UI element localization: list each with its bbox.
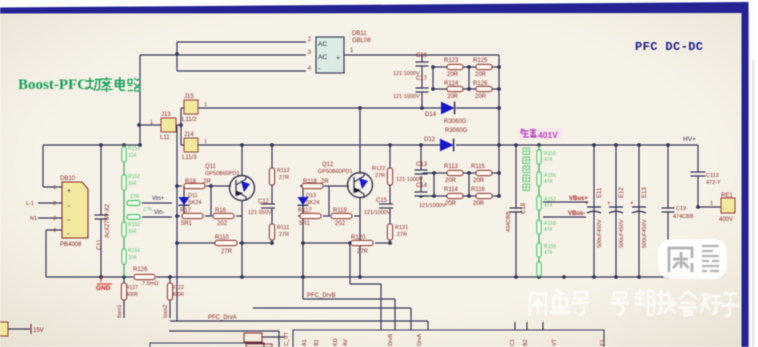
svg-text:+: +	[607, 201, 611, 207]
svg-text:~: ~	[67, 218, 71, 224]
svg-text:R153: R153	[128, 222, 140, 228]
svg-text:27R: 27R	[375, 173, 385, 179]
svg-text:20R: 20R	[473, 201, 485, 207]
svg-text:VBus-: VBus-	[568, 211, 585, 217]
svg-text:C11: C11	[97, 239, 103, 250]
svg-text:R3060G: R3060G	[445, 128, 468, 134]
svg-text:HV+: HV+	[683, 136, 696, 143]
svg-text:DrvB: DrvB	[388, 333, 394, 346]
svg-text:R3060G: R3060G	[444, 119, 467, 125]
svg-text:B2: B2	[523, 339, 529, 346]
svg-text:474CBB: 474CBB	[673, 214, 694, 220]
svg-text:R17: R17	[180, 208, 192, 214]
svg-text:R16: R16	[215, 208, 227, 214]
svg-text:202: 202	[217, 221, 228, 227]
svg-text:R127: R127	[126, 285, 138, 291]
svg-text:2R: 2R	[321, 179, 329, 185]
svg-text:C19: C19	[676, 206, 686, 212]
svg-text:R124: R124	[444, 81, 459, 87]
svg-text:R122: R122	[172, 285, 184, 291]
svg-text:104: 104	[128, 255, 137, 261]
svg-text:Vin-: Vin-	[154, 210, 165, 216]
svg-text:R119: R119	[333, 208, 348, 214]
svg-text:PB4008: PB4008	[60, 242, 82, 248]
svg-text:1: 1	[204, 139, 207, 145]
svg-text:500uF450V: 500uF450V	[597, 219, 603, 248]
svg-text:2: 2	[53, 201, 56, 207]
svg-text:R151: R151	[128, 146, 140, 152]
svg-text:27R: 27R	[279, 232, 289, 238]
svg-text:27R: 27R	[397, 232, 407, 238]
svg-text:VT: VT	[552, 338, 558, 346]
svg-text:J13: J13	[161, 112, 171, 118]
svg-text:R154: R154	[128, 248, 140, 254]
svg-text:27R: 27R	[143, 207, 153, 213]
svg-text:R18: R18	[185, 179, 197, 185]
svg-text:400R: 400R	[172, 292, 184, 298]
svg-text:GND: GND	[96, 285, 111, 292]
svg-text:474: 474	[544, 179, 553, 185]
svg-text:+: +	[630, 201, 634, 207]
svg-text:C16: C16	[416, 53, 428, 59]
svg-text:E11: E11	[597, 187, 603, 198]
svg-text:1: 1	[710, 201, 713, 207]
svg-text:474: 474	[544, 250, 553, 256]
svg-text:J15: J15	[184, 94, 194, 100]
svg-text:3: 3	[53, 216, 56, 222]
svg-text:B1: B1	[314, 339, 320, 346]
svg-text:J14: J14	[184, 132, 194, 138]
svg-text:R117: R117	[298, 208, 313, 214]
svg-text:400V: 400V	[719, 217, 733, 223]
svg-text:GBL08: GBL08	[352, 38, 371, 44]
svg-text:C17: C17	[416, 76, 428, 82]
svg-text:R115: R115	[471, 164, 486, 170]
svg-text:+: +	[336, 55, 340, 62]
svg-text:C13: C13	[416, 162, 428, 168]
svg-text:R152: R152	[128, 174, 140, 180]
svg-text:R112: R112	[277, 168, 290, 174]
svg-text:434CBB: 434CBB	[506, 211, 512, 232]
svg-text:DB11: DB11	[352, 31, 367, 37]
svg-text:A1: A1	[302, 339, 308, 346]
svg-text:L11/2: L11/2	[182, 117, 197, 123]
svg-text:D14: D14	[425, 112, 437, 118]
svg-text:121 1000V: 121 1000V	[393, 94, 420, 100]
svg-text:20R: 20R	[475, 94, 487, 100]
svg-text:5R1: 5R1	[181, 221, 193, 227]
svg-text:C15: C15	[376, 198, 388, 204]
svg-text:104: 104	[128, 181, 137, 187]
svg-text:+: +	[67, 188, 71, 195]
svg-text:L-1: L-1	[26, 201, 34, 207]
svg-text:1: 1	[204, 102, 207, 108]
svg-text:2R: 2R	[203, 179, 211, 185]
svg-text:Isen1: Isen1	[117, 305, 123, 318]
svg-text:20R: 20R	[447, 94, 459, 100]
svg-text:R121: R121	[395, 225, 408, 231]
svg-text:202: 202	[335, 221, 346, 227]
svg-text:R118: R118	[303, 179, 318, 185]
svg-text:R113: R113	[444, 164, 459, 170]
svg-text:15V: 15V	[33, 328, 44, 334]
svg-text:KD: KD	[333, 338, 339, 346]
svg-text:RE1: RE1	[721, 193, 733, 199]
svg-text:121/1000V: 121/1000V	[419, 203, 446, 209]
svg-text:20R: 20R	[473, 178, 485, 184]
svg-text:R110: R110	[215, 235, 230, 241]
svg-text:1: 1	[150, 120, 153, 126]
svg-text:1: 1	[53, 185, 56, 191]
svg-text:PFC_DrvA: PFC_DrvA	[208, 315, 237, 321]
svg-text:GP50B60PD1: GP50B60PD1	[205, 171, 240, 177]
svg-text:D12: D12	[424, 137, 436, 143]
svg-text:PFC DC-DC: PFC DC-DC	[635, 40, 703, 54]
svg-text:104: 104	[128, 229, 137, 235]
svg-text:20R: 20R	[445, 178, 457, 184]
svg-text:401V: 401V	[538, 130, 558, 140]
svg-text:Q11: Q11	[205, 164, 217, 170]
svg-text:E1: E1	[600, 339, 606, 346]
svg-text:R123: R123	[444, 58, 459, 64]
svg-text:20R: 20R	[447, 72, 459, 78]
svg-text:27R: 27R	[221, 249, 233, 255]
svg-text:104: 104	[128, 153, 137, 159]
svg-text:C18: C18	[521, 202, 527, 214]
svg-text:PFC_DrvB: PFC_DrvB	[307, 293, 336, 299]
svg-text:121/1000V: 121/1000V	[364, 210, 391, 216]
svg-text:7.5mΩ: 7.5mΩ	[142, 281, 158, 287]
svg-text:27R: 27R	[130, 194, 140, 200]
svg-text:AcX275V-X2: AcX275V-X2	[105, 203, 111, 238]
svg-text:500uF450V: 500uF450V	[642, 219, 648, 248]
svg-text:DB10: DB10	[60, 176, 76, 182]
svg-text:Q12: Q12	[322, 162, 334, 168]
svg-text:R126: R126	[133, 267, 148, 273]
svg-text:C_VT: C_VT	[284, 331, 290, 346]
svg-text:AC: AC	[318, 54, 327, 61]
svg-text:AV: AV	[343, 339, 349, 346]
svg-text:C12: C12	[258, 199, 270, 205]
svg-text:GP50B60PD1: GP50B60PD1	[318, 169, 353, 175]
svg-text:400R: 400R	[126, 292, 138, 298]
svg-text:N1: N1	[30, 216, 37, 222]
svg-text:500uF450V: 500uF450V	[619, 219, 625, 248]
svg-text:121 550V: 121 550V	[248, 210, 272, 216]
svg-text:D11: D11	[188, 193, 198, 199]
svg-text:474: 474	[544, 227, 553, 233]
svg-text:R126: R126	[473, 81, 488, 87]
svg-text:C1: C1	[510, 339, 516, 346]
svg-text:Isen2: Isen2	[163, 305, 169, 318]
svg-text:4: 4	[53, 228, 56, 234]
svg-text:L11: L11	[160, 135, 170, 141]
svg-text:20R: 20R	[445, 201, 457, 207]
svg-text:C113: C113	[706, 173, 719, 179]
svg-text:~: ~	[67, 204, 71, 210]
svg-text:L11/3: L11/3	[182, 155, 197, 161]
svg-text:27R: 27R	[357, 249, 369, 255]
svg-text:SK24: SK24	[188, 200, 201, 206]
svg-text:D13: D13	[306, 193, 316, 199]
svg-text:R125: R125	[473, 58, 488, 64]
svg-text:474: 474	[544, 203, 553, 209]
svg-text:R122: R122	[372, 166, 385, 172]
svg-text:R111: R111	[277, 225, 289, 231]
svg-text:E12: E12	[619, 187, 625, 198]
svg-text:5R1: 5R1	[299, 221, 311, 227]
svg-text:27R: 27R	[279, 175, 289, 181]
svg-text:Boost-PFC: Boost-PFC	[18, 77, 88, 93]
svg-text:C14: C14	[416, 183, 428, 189]
svg-text:DrvA: DrvA	[417, 333, 423, 346]
svg-text:SK24: SK24	[306, 200, 319, 206]
svg-text:VBus+: VBus+	[569, 196, 588, 202]
svg-text:474: 474	[544, 157, 553, 163]
svg-text:472-Y: 472-Y	[706, 180, 721, 186]
svg-text:R114: R114	[444, 187, 459, 193]
svg-text:20R: 20R	[475, 72, 487, 78]
svg-text:R116: R116	[471, 187, 486, 193]
svg-text:E13: E13	[642, 187, 648, 198]
svg-text:R120: R120	[351, 235, 366, 241]
svg-text:Vin+: Vin+	[152, 196, 165, 202]
svg-text:AC: AC	[318, 41, 327, 48]
